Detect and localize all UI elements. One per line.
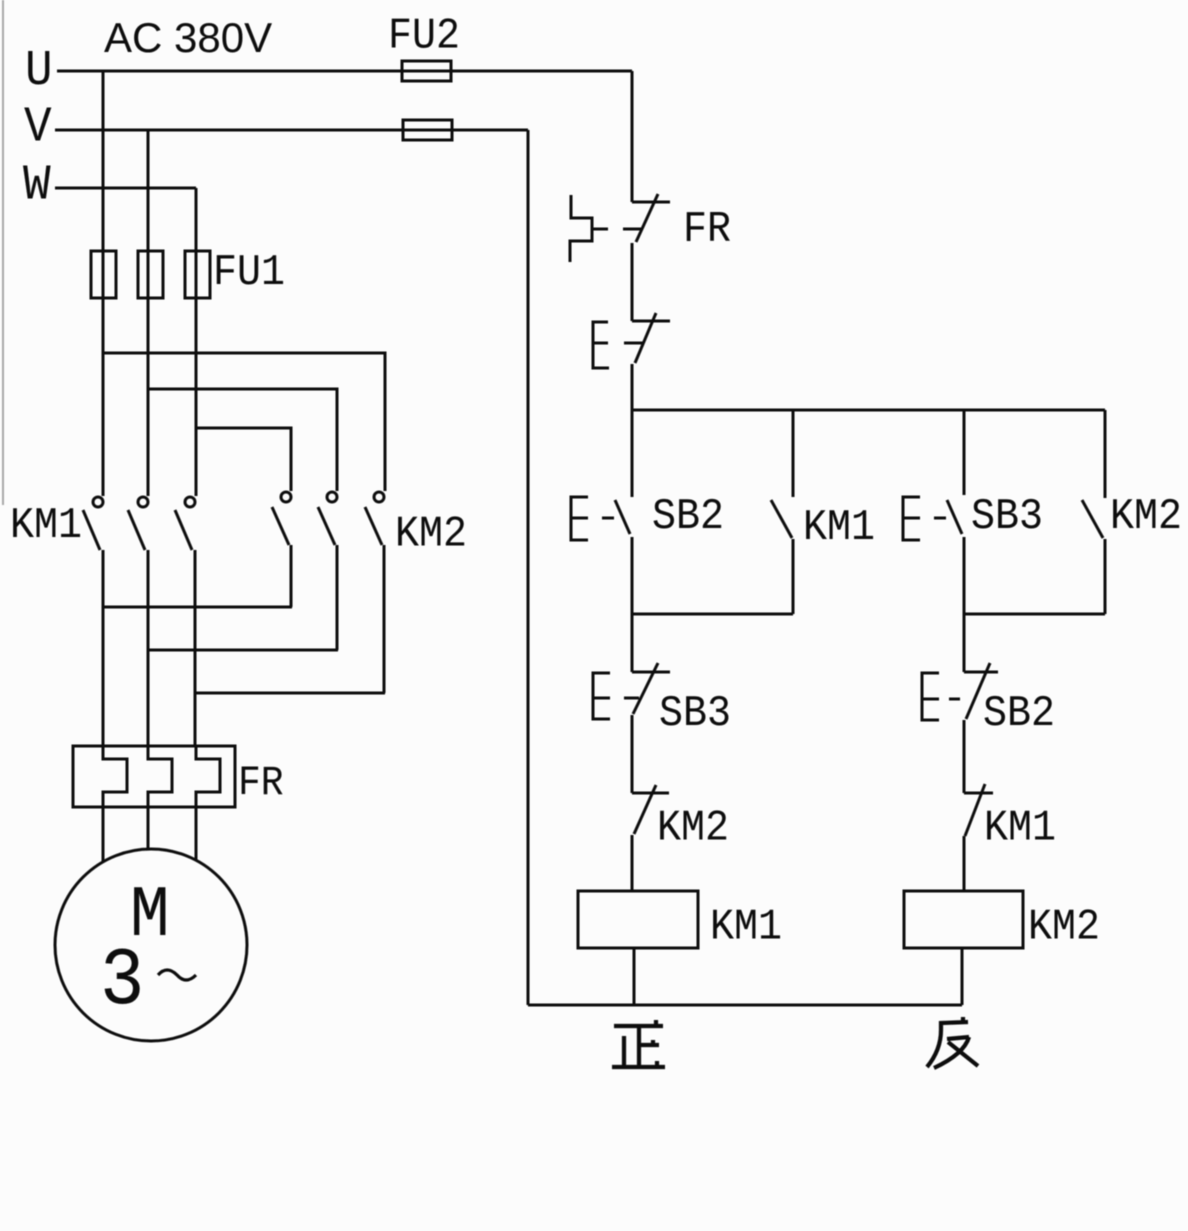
wire SB3 NC to KM2 interlock — [631, 715, 634, 793]
svg-text:AC 380V: AC 380V — [104, 14, 272, 61]
wire coil KM1 to bottom rail — [633, 948, 636, 1005]
FR heater element phase 2 — [148, 746, 172, 807]
contact KM1 pole 1 — [83, 497, 103, 550]
wire branch KM1aux from rail — [792, 410, 795, 497]
svg-text:V: V — [24, 100, 52, 156]
coil KM1 — [578, 891, 698, 948]
label coil KM1 — [710, 902, 782, 952]
label SB2 NC — [983, 688, 1055, 738]
svg-text:SB2: SB2 — [652, 491, 724, 541]
svg-text:KM1: KM1 — [803, 502, 875, 552]
label FU2 — [388, 11, 460, 61]
wire SB2 NC to KM1 interlock — [963, 720, 966, 793]
label fan reverse character — [927, 1017, 978, 1068]
svg-text:3: 3 — [100, 936, 144, 1028]
label KM1 interlock — [984, 803, 1056, 853]
wire KM1 aux to left subrail — [792, 539, 795, 614]
fuse FU1 phase U — [91, 251, 116, 298]
wire KM2 interlock to coil KM1 — [631, 835, 634, 891]
svg-text:U: U — [25, 44, 53, 100]
motor M circle — [55, 849, 247, 1041]
wire KM2 pole1 output down — [290, 545, 293, 607]
wire phase W vertical — [195, 188, 198, 496]
contact KM2 interlock NC top bar — [632, 792, 669, 795]
contact FR NC blade — [636, 194, 658, 242]
wire phase V vertical — [147, 130, 150, 496]
label SB3 NC — [659, 688, 731, 738]
start button SB2 NO blade — [615, 500, 630, 534]
button SB3 NC blade — [633, 663, 658, 714]
FR trip actuator — [570, 195, 592, 262]
contact KM2 pole 2 — [318, 492, 337, 545]
wire FR to stop button — [631, 243, 634, 321]
svg-text:FU1: FU1 — [213, 247, 285, 297]
wire output tie phase A — [102, 606, 292, 609]
wire W bus — [55, 187, 196, 190]
label KM2 interlock — [657, 803, 729, 853]
FR heater element phase 1 — [103, 746, 127, 807]
contact KM1 pole 2 — [128, 497, 148, 550]
wire crossover W to KM2 left contact — [196, 428, 291, 491]
contact KM1 interlock NC blade — [965, 784, 985, 836]
contact KM1 interlock NC top bar — [964, 792, 993, 795]
button SB2 NC actuator E — [922, 673, 939, 720]
contact KM2 pole 3 — [365, 492, 384, 545]
start button SB3 link dash — [934, 517, 946, 520]
start button SB3 actuator E — [903, 497, 920, 540]
wire right chain down to SB2 NC — [963, 614, 966, 672]
label KM1 main contacts — [10, 500, 82, 550]
button SB2 NC blade — [966, 663, 990, 719]
FR heater element phase 3 — [196, 746, 220, 807]
svg-text:KM1: KM1 — [10, 500, 82, 550]
contact FR NC top bar — [632, 201, 670, 204]
wire phase U vertical — [102, 71, 105, 496]
node U label — [25, 44, 53, 100]
label SB2 start — [652, 491, 724, 541]
svg-text:KM1: KM1 — [984, 803, 1056, 853]
wire FR to motor 3 — [195, 807, 198, 860]
button SB3 NC top bar — [632, 671, 670, 674]
wire control hot from FU2 down — [631, 71, 634, 202]
wire branch SB2 from rail — [631, 410, 634, 497]
wire KM1 pole1 output down to FR — [102, 550, 105, 746]
wire crossover U to KM2 right contact — [103, 353, 385, 491]
scan artifact left edge — [2, 0, 4, 505]
label AC 380V — [104, 14, 272, 61]
start button SB2 link dash — [602, 517, 614, 520]
fuse FU1 phase V — [138, 251, 163, 298]
wire branch SB3 from rail — [963, 410, 966, 495]
stop button SB1 NC top bar — [632, 320, 670, 323]
contact KM1 pole 3 — [175, 497, 195, 550]
stop button SB1 link dash — [624, 342, 643, 345]
svg-text:KM1: KM1 — [710, 902, 782, 952]
wire KM1 interlock to coil KM2 — [963, 836, 966, 891]
label KM2 main contacts — [395, 509, 467, 559]
svg-text:FR: FR — [683, 204, 731, 254]
contact KM1 aux NO blade — [771, 500, 792, 538]
wire crossover V to KM2 middle contact — [148, 389, 337, 491]
wire FR to motor 1 — [102, 807, 105, 862]
button SB3 NC actuator E — [593, 673, 610, 719]
svg-text:KM2: KM2 — [1110, 491, 1182, 541]
wire output tie phase B — [148, 649, 338, 652]
button SB2 NC link dash — [949, 698, 960, 701]
button SB2 NC top bar — [964, 671, 998, 674]
wire FR to motor 2 — [147, 807, 150, 850]
button SB3 NC link dash — [624, 697, 639, 700]
fuse FU1 phase W — [185, 251, 210, 298]
wire coil KM2 to bottom rail — [961, 948, 964, 1005]
wire V bus — [55, 129, 528, 132]
svg-text:SB3: SB3 — [659, 688, 731, 738]
motor label tilde — [158, 970, 196, 980]
svg-text:KM2: KM2 — [657, 803, 729, 853]
svg-text:FU2: FU2 — [388, 11, 460, 61]
label KM2 aux — [1110, 491, 1182, 541]
label zheng forward character — [612, 1020, 665, 1067]
svg-text:SB3: SB3 — [971, 491, 1043, 541]
wire KM1 pole2 output down to FR — [147, 550, 150, 746]
svg-text:FR: FR — [238, 760, 284, 807]
stop button SB1 NC blade — [635, 313, 656, 363]
wire right subrail — [964, 613, 1105, 616]
motor label M — [130, 874, 170, 957]
contact KM2 pole 1 — [272, 492, 291, 545]
stop button SB1 actuator E — [593, 322, 609, 368]
wire SB2 to left subrail — [631, 537, 634, 614]
wire KM2 pole3 output down — [383, 545, 386, 693]
fuse FU2 phase V — [403, 120, 452, 140]
wire output tie phase C — [195, 692, 385, 695]
svg-text:SB2: SB2 — [983, 688, 1055, 738]
thermal relay FR heater box — [73, 746, 235, 807]
label SB3 start — [971, 491, 1043, 541]
svg-text:KM2: KM2 — [1028, 902, 1100, 952]
wire control neutral from FU2 V down — [527, 130, 530, 1005]
label FR contact — [683, 204, 731, 254]
start button SB2 actuator E — [571, 497, 588, 540]
wire KM2 pole2 output down — [336, 545, 339, 650]
svg-text:W: W — [23, 158, 51, 214]
contact KM2 aux NO blade — [1082, 500, 1103, 538]
wire U bus — [57, 70, 632, 73]
svg-text:KM2: KM2 — [395, 509, 467, 559]
wire left chain down to SB3 NC — [631, 614, 634, 672]
wire SB3 to right subrail — [963, 537, 966, 614]
wire left subrail — [632, 613, 793, 616]
motor label 3 — [100, 936, 144, 1028]
fuse FU2 phase U — [402, 61, 451, 81]
contact KM2 interlock NC blade — [634, 785, 656, 834]
node V label — [24, 100, 52, 156]
wire branch KM2aux from rail — [1104, 410, 1107, 498]
wire top rail — [632, 409, 1105, 412]
label FR heater — [238, 760, 284, 807]
label KM1 aux — [803, 502, 875, 552]
label coil KM2 — [1028, 902, 1100, 952]
start button SB3 NO blade — [947, 500, 962, 534]
FR actuator link dashes — [593, 228, 642, 231]
label FU1 — [213, 247, 285, 297]
node W label — [23, 158, 51, 214]
wire bottom rail — [528, 1004, 962, 1007]
wire KM1 pole3 output down to FR — [194, 550, 197, 746]
wire KM2 aux to right subrail — [1104, 539, 1107, 614]
coil KM2 — [904, 891, 1023, 948]
wire stop button to rail — [631, 364, 634, 410]
